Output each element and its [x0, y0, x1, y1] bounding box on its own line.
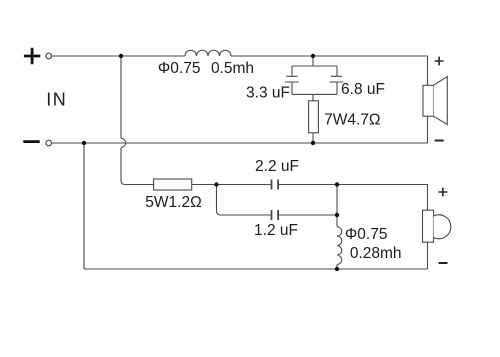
wire top rail right: [231, 55, 428, 57]
wire node B to node C: [336, 185, 338, 216]
wire capacitor block bottom bar: [292, 82, 337, 101]
resistor R1 7W4.7 ohm: [309, 101, 319, 133]
wire branch down to C4: [217, 185, 272, 216]
terminal - woofer: [435, 140, 444, 142]
wire vertical from plus rail with hop over minus rail: [121, 56, 154, 185]
wire woofer plus lead: [427, 56, 429, 85]
terminal - tweeter: [439, 262, 448, 264]
inductor L2 0.28mh: [337, 227, 342, 265]
node junction top rail x121: [119, 54, 123, 58]
svg-text:7W4.7Ω: 7W4.7Ω: [324, 112, 380, 129]
wire minus rail: [52, 142, 428, 144]
wire left vertical minus branch: [83, 143, 85, 269]
speaker woofer SP1: [423, 77, 447, 125]
node junction top rail x313: [311, 54, 315, 58]
terminal + tweeter: [439, 188, 448, 197]
wire bottom rail: [84, 268, 428, 270]
wire R2 to node: [192, 184, 217, 186]
wire node C to inductor L2: [336, 215, 338, 227]
wire junction to capacitor block: [312, 56, 314, 66]
svg-text:Φ0.75: Φ0.75: [158, 60, 201, 77]
svg-text:IN: IN: [46, 90, 67, 110]
wire woofer minus lead: [427, 116, 429, 143]
node junction minus rail x84: [82, 141, 86, 145]
svg-text:0.28mh: 0.28mh: [350, 245, 402, 262]
svg-text:0.5mh: 0.5mh: [211, 60, 254, 77]
svg-text:5W1.2Ω: 5W1.2Ω: [145, 194, 201, 211]
svg-text:1.2 uF: 1.2 uF: [254, 222, 298, 239]
terminal + woofer: [435, 57, 444, 66]
wire C3 to node B: [278, 184, 337, 186]
capacitor C1 3.3uF: [285, 76, 299, 82]
capacitor C3 2.2uF: [272, 180, 279, 190]
node C junction: [335, 213, 339, 217]
capacitor C4 1.2uF: [272, 210, 279, 220]
speaker tweeter SP2: [423, 210, 451, 242]
svg-text:3.3 uF: 3.3 uF: [246, 85, 290, 102]
node B junction: [335, 182, 339, 186]
wire node to capacitor C3: [217, 184, 272, 186]
terminal - input: [23, 140, 39, 143]
wire L2 bottom lead: [336, 265, 338, 270]
node junction R2 output: [214, 182, 218, 186]
svg-text:Φ0.75: Φ0.75: [345, 226, 388, 243]
resistor R2 5W1.2 ohm: [154, 179, 192, 190]
node junction minus rail x313: [311, 141, 315, 145]
wire capacitor block top bar: [292, 66, 337, 76]
wire C4 to node C: [278, 214, 337, 216]
wire top rail left: [52, 55, 185, 57]
capacitor C2 6.8uF: [329, 76, 343, 82]
node - terminal circle: [46, 140, 52, 146]
wire tweeter top rail: [337, 185, 428, 211]
wire R1 bottom lead: [312, 133, 314, 143]
svg-text:2.2 uF: 2.2 uF: [255, 158, 299, 175]
svg-text:6.8 uF: 6.8 uF: [341, 81, 385, 98]
inductor L1 0.5mh: [185, 50, 231, 56]
terminal + input: [24, 48, 40, 65]
node junction bottom rail: [335, 267, 339, 271]
wire tweeter bottom lead: [427, 242, 429, 269]
node + terminal circle: [46, 53, 52, 59]
